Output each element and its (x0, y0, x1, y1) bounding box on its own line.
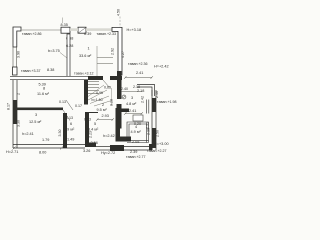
svg-text:8: 8 (43, 87, 45, 91)
svg-text:Н=+3.18: Н=+3.18 (127, 28, 142, 32)
svg-text:2.42: 2.42 (141, 96, 145, 103)
svg-text:Ну=2.72: Ну=2.72 (101, 151, 115, 155)
svg-text:6.39: 6.39 (84, 32, 91, 36)
svg-text:2: 2 (102, 103, 104, 107)
svg-text:3.30: 3.30 (58, 130, 62, 137)
svg-text:таван.+3.37: таван.+3.37 (21, 69, 41, 73)
svg-text:b=3.75: b=3.75 (48, 49, 60, 53)
svg-text:таван.+1.98: таван.+1.98 (157, 100, 177, 104)
svg-text:8.35: 8.35 (61, 23, 68, 27)
svg-text:таван.+2.77: таван.+2.77 (126, 155, 146, 159)
svg-text:3.26: 3.26 (83, 149, 90, 153)
svg-text:таван.+2.36: таван.+2.36 (128, 62, 148, 66)
svg-text:8.38: 8.38 (47, 68, 54, 72)
svg-text:2.39: 2.39 (130, 150, 137, 154)
svg-text:2.23: 2.23 (89, 131, 93, 138)
svg-text:9.5 м²: 9.5 м² (97, 108, 108, 112)
svg-text:8.17: 8.17 (7, 103, 11, 110)
svg-text:2.93: 2.93 (102, 114, 109, 118)
svg-text:3: 3 (131, 96, 133, 100)
svg-text:0.13: 0.13 (66, 116, 73, 120)
svg-text:4: 4 (135, 125, 137, 129)
svg-text:таван.+2.33: таван.+2.33 (97, 32, 117, 36)
svg-text:3.28: 3.28 (110, 99, 114, 106)
svg-text:4.8 м²: 4.8 м² (126, 102, 137, 106)
svg-text:h=2.41: h=2.41 (22, 132, 34, 136)
svg-text:4.50: 4.50 (117, 9, 121, 16)
svg-text:b=1.60: b=1.60 (92, 98, 103, 102)
svg-text:6: 6 (70, 122, 72, 126)
svg-text:0.13: 0.13 (59, 100, 66, 104)
svg-text:2.41: 2.41 (129, 109, 136, 113)
svg-text:таван.+2.86: таван.+2.86 (22, 32, 42, 36)
svg-text:Н=2.71: Н=2.71 (6, 150, 18, 154)
svg-text:Н=+2.42: Н=+2.42 (154, 65, 169, 69)
svg-text:3.30: 3.30 (17, 120, 21, 127)
svg-text:2: 2 (17, 93, 21, 95)
svg-text:12.5 м²: 12.5 м² (29, 120, 42, 124)
svg-text:2.30: 2.30 (147, 128, 151, 135)
svg-text:33.6 м²: 33.6 м² (79, 54, 92, 58)
svg-text:4.9 м²: 4.9 м² (64, 128, 75, 132)
svg-text:5: 5 (94, 122, 96, 126)
svg-text:1: 1 (88, 47, 90, 51)
svg-text:4.9 м²: 4.9 м² (131, 130, 142, 134)
svg-text:2.41: 2.41 (136, 71, 143, 75)
svg-text:4.27: 4.27 (121, 51, 125, 58)
svg-text:1.49: 1.49 (67, 138, 74, 142)
svg-text:0.17: 0.17 (75, 104, 82, 108)
svg-text:2.40: 2.40 (121, 87, 128, 91)
svg-text:2.18: 2.18 (133, 85, 140, 89)
svg-text:11.6 м²: 11.6 м² (37, 92, 50, 96)
svg-text:3: 3 (35, 113, 37, 117)
svg-text:2.18: 2.18 (137, 89, 144, 93)
svg-text:2.46: 2.46 (155, 91, 159, 98)
svg-text:Н=+3.00: Н=+3.00 (154, 142, 169, 146)
svg-text:2.05: 2.05 (132, 140, 139, 144)
svg-text:0.13: 0.13 (84, 118, 91, 122)
svg-text:таван.+3.12: таван.+3.12 (74, 72, 94, 76)
svg-text:0.96: 0.96 (96, 91, 103, 95)
svg-text:6.28: 6.28 (66, 44, 73, 48)
svg-text:2.35: 2.35 (146, 122, 150, 129)
svg-text:8.00: 8.00 (39, 151, 46, 155)
svg-text:0,65: 0,65 (104, 86, 111, 90)
svg-text:h=2.42: h=2.42 (103, 134, 115, 138)
svg-text:2.50: 2.50 (156, 130, 160, 137)
svg-text:5.4 м²: 5.4 м² (88, 128, 99, 132)
svg-text:2.92: 2.92 (111, 48, 115, 55)
svg-text:3.90: 3.90 (17, 51, 21, 58)
svg-text:1.79: 1.79 (42, 138, 49, 142)
